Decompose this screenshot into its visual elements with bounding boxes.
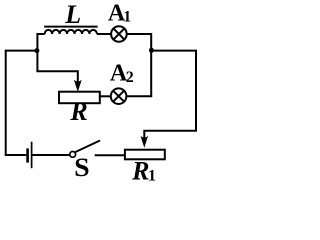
- svg-text:2: 2: [126, 69, 134, 86]
- svg-text:R: R: [69, 97, 87, 126]
- svg-text:S: S: [74, 153, 90, 182]
- svg-text:1: 1: [123, 8, 131, 25]
- svg-text:1: 1: [148, 167, 156, 184]
- svg-text:L: L: [64, 0, 81, 29]
- svg-text:R: R: [131, 157, 149, 186]
